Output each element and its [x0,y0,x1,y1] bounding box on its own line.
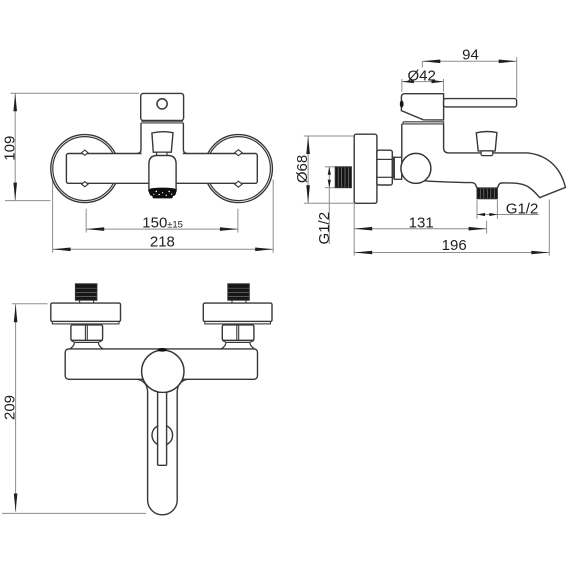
svg-text:196: 196 [442,237,467,254]
svg-text:131: 131 [409,214,434,231]
svg-text:209: 209 [1,395,18,420]
svg-text:94: 94 [462,47,479,64]
svg-text:G1/2: G1/2 [316,212,333,245]
svg-text:150: 150 [142,214,167,231]
svg-text:G1/2: G1/2 [506,201,539,218]
svg-text:Ø42: Ø42 [408,67,436,84]
svg-text:Ø68: Ø68 [294,155,311,183]
svg-text:±15: ±15 [167,220,183,231]
svg-text:109: 109 [1,136,18,161]
svg-text:218: 218 [150,234,175,251]
